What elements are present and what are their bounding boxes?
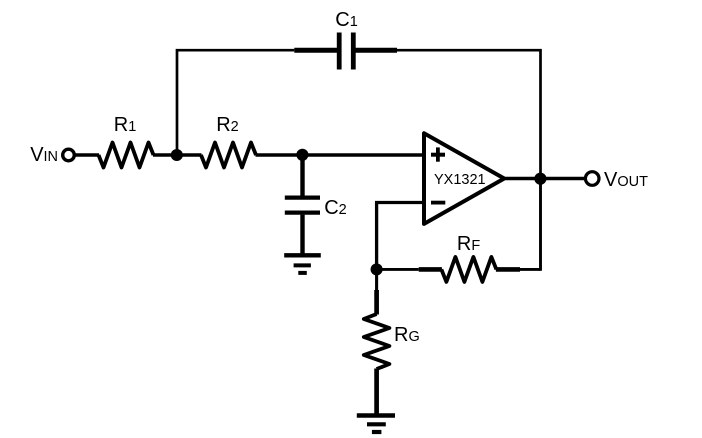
svg-text:YX1321: YX1321 [434,172,486,188]
